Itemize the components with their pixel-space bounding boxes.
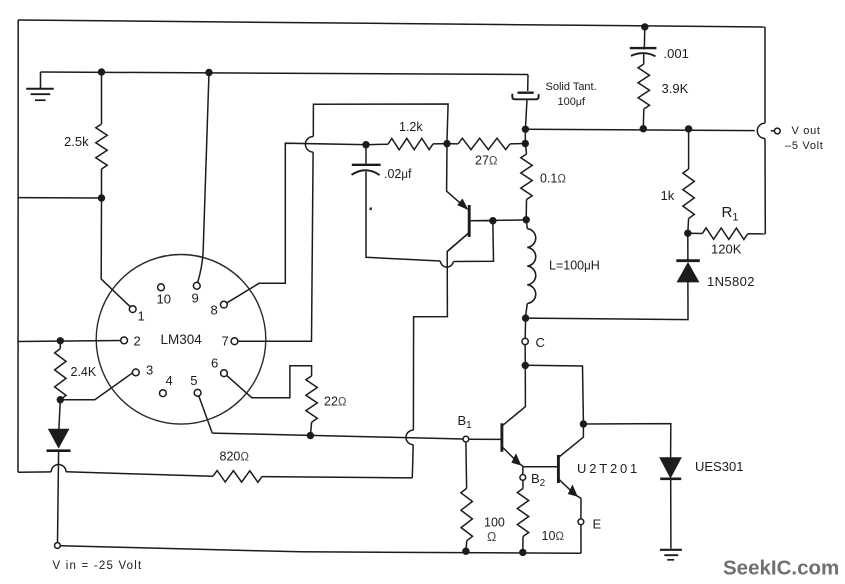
svg-text:5: 5 [190, 373, 197, 388]
wire hop over B1 rail [406, 430, 413, 445]
resistor 120K [702, 228, 747, 240]
wire right border lower [764, 139, 766, 234]
wire C lower lead [524, 345, 526, 363]
terminal V in [55, 543, 61, 549]
resistor 3.9K [638, 64, 649, 109]
wire 22 bottom lead [310, 422, 311, 435]
wire right border upper [764, 27, 766, 123]
wire 2.5k top lead [101, 72, 103, 124]
resistor 820 [213, 471, 262, 483]
wire pin6 link [227, 366, 312, 398]
capacitor Solid Tant 100uf [512, 93, 538, 100]
pin 10 [158, 284, 165, 291]
transistor Q3 [447, 199, 490, 251]
wire pin1 riser [101, 198, 130, 307]
svg-text:–5 Volt: –5 Volt [785, 140, 824, 152]
wire 120K right lead [748, 233, 766, 235]
pin 9 [193, 282, 200, 289]
diode 1N5802 [676, 261, 700, 282]
terminal V out [774, 128, 780, 134]
svg-text:10Ω: 10Ω [542, 529, 565, 543]
wire solid-tant top lead [527, 75, 529, 92]
svg-text:1: 1 [138, 309, 145, 324]
wire 3.9K bottom lead [642, 109, 645, 129]
svg-text:V in = -25 Volt: V in = -25 Volt [53, 560, 143, 572]
svg-text:Ω: Ω [487, 530, 496, 544]
pin 8 [221, 301, 228, 308]
svg-text:V out: V out [792, 125, 821, 137]
svg-text:E: E [593, 517, 602, 532]
svg-text:C: C [536, 335, 545, 350]
stray dot artifact [370, 208, 372, 211]
wire ground rail [41, 72, 529, 75]
capacitor .02uf [352, 165, 381, 175]
wire top rail [18, 20, 765, 27]
svg-text:.02μf: .02μf [384, 167, 412, 181]
svg-text:2.5k: 2.5k [64, 134, 89, 149]
wire 820 rail mid [66, 472, 213, 476]
wire 1.2k left lead [366, 143, 388, 146]
wire 100 bottom lead [465, 541, 468, 552]
svg-text:6: 6 [211, 356, 218, 371]
pin 5 [194, 389, 201, 396]
svg-text:Solid Tant.: Solid Tant. [546, 81, 597, 93]
wire 2.5k bottom lead [101, 169, 103, 198]
transistor Q2 [558, 424, 583, 498]
wire hop over collector riser [440, 261, 453, 267]
svg-text:100μf: 100μf [558, 96, 586, 108]
wire collector riser upper [413, 233, 468, 430]
wire 10 bottom lead [522, 537, 524, 553]
wire inductor top lead [526, 220, 527, 229]
resistor 22 [306, 376, 317, 422]
wire hop over V out lead [757, 123, 765, 138]
svg-text:2.4K: 2.4K [71, 365, 97, 379]
wire .02 top lead [365, 145, 367, 164]
resistor 2.4K [55, 349, 66, 400]
wire C to Q2 collector [525, 365, 583, 421]
svg-text:27Ω: 27Ω [475, 154, 498, 168]
svg-text:UES301: UES301 [695, 459, 743, 474]
svg-text:1k: 1k [661, 188, 675, 203]
diode D1 [47, 429, 71, 451]
resistor 1.2k [388, 138, 433, 150]
svg-text:U2T201: U2T201 [577, 461, 640, 476]
op-amp regulator LM304 body [96, 254, 266, 424]
svg-text:L=100μH: L=100μH [549, 259, 600, 273]
wire 0.1 top lead [525, 144, 526, 155]
wire pin7 link [238, 152, 313, 341]
resistor 0.1 [521, 154, 532, 200]
wire vout-27 link [524, 129, 526, 143]
wire rect top [313, 104, 448, 141]
wire B1 rail [212, 433, 463, 439]
pin 4 [160, 390, 167, 397]
pin 2 [121, 337, 128, 344]
svg-text:LM304: LM304 [161, 332, 203, 347]
svg-text:0.1Ω: 0.1Ω [540, 172, 566, 186]
wire diode bottom lead [58, 451, 59, 543]
svg-text:10: 10 [157, 292, 171, 307]
terminal B2 [520, 475, 526, 481]
wire 1N5802 top lead [687, 236, 689, 261]
pin 1 [129, 306, 136, 313]
wire 820 rail left [18, 471, 51, 473]
svg-text:1.2k: 1.2k [399, 120, 423, 134]
wire V in rail [60, 546, 581, 554]
ground [26, 72, 54, 100]
node C [522, 338, 528, 344]
wire 120K left lead [688, 232, 703, 234]
wire 10 top lead [522, 480, 524, 488]
wire B1 to Q1 base [469, 438, 501, 440]
wire UES301 bottom lead [670, 479, 672, 549]
wire .02 bottom lead [366, 172, 440, 262]
svg-text:3: 3 [146, 363, 153, 378]
svg-text:.001: .001 [664, 46, 689, 61]
wire inductor bottom lead [526, 304, 528, 316]
wire inductor to diode [526, 282, 688, 320]
wire pin3 link [60, 373, 133, 400]
wire 1k bottom lead [687, 219, 690, 234]
wire Q2 emitter lead [580, 498, 582, 519]
resistor 1k [683, 169, 694, 219]
pin 3 [132, 369, 139, 376]
svg-text:8: 8 [211, 303, 218, 318]
svg-text:120K: 120K [711, 242, 742, 257]
wire to left border y198 [18, 197, 102, 199]
svg-text:7: 7 [222, 333, 229, 348]
wire 1k top lead [688, 129, 690, 169]
wire Q3 emitter riser [447, 144, 467, 209]
wire .001 top lead [643, 27, 646, 50]
wire hop over V in lead [51, 464, 66, 471]
wire Q2 base rail [524, 466, 558, 468]
wire V out stub [771, 130, 775, 132]
wire 0.1 bottom lead [525, 200, 527, 220]
svg-text:1N5802: 1N5802 [707, 274, 755, 289]
wire left border [17, 20, 19, 472]
wire .02 to base riser [453, 224, 493, 262]
wire collector riser lower [411, 445, 414, 478]
svg-text:22Ω: 22Ω [324, 395, 347, 409]
wire 820 rail right [262, 477, 412, 478]
svg-text:9: 9 [192, 291, 199, 306]
svg-text:3.9K: 3.9K [662, 81, 689, 96]
wire 2.4K top lead [59, 341, 61, 349]
svg-text:820Ω: 820Ω [220, 450, 250, 464]
svg-text:2: 2 [134, 333, 141, 348]
wire pin9 riser [198, 73, 209, 283]
wire V out rail [525, 129, 754, 130]
wire diode top lead [59, 400, 60, 429]
terminal B1 [463, 436, 469, 442]
wire base rail [469, 219, 526, 222]
wire 27 right lead [510, 143, 525, 145]
svg-text:4: 4 [166, 373, 173, 388]
wire pin5 link [199, 396, 213, 433]
wire Q2c to UES301 [583, 424, 670, 458]
capacitor .001 [630, 48, 657, 56]
wire hop over pin8 rail [305, 136, 313, 152]
resistor 100 [461, 488, 473, 540]
pin 7 [231, 338, 238, 345]
wire Q1 collector [503, 366, 526, 426]
diode UES301 [660, 458, 681, 479]
transistor Q1 [502, 423, 524, 466]
wire solid-tant bottom lead [525, 99, 527, 129]
ground under UES301 [660, 550, 682, 560]
wire cap-3.9K link [643, 53, 645, 64]
terminal E [578, 519, 584, 525]
wire pin2 [18, 341, 121, 342]
wire C upper lead [524, 318, 526, 338]
pin 6 [221, 370, 228, 377]
svg-text:SeekIC.com: SeekIC.com [723, 557, 839, 580]
inductor L [527, 229, 535, 304]
wire 100 top lead [465, 442, 468, 488]
resistor 10 [517, 489, 528, 537]
wire 1.2k right lead [433, 143, 447, 145]
wire pin8 link [227, 143, 363, 303]
wire E to rail [580, 525, 582, 554]
resistor 2.5k [96, 124, 107, 169]
resistor 27 [458, 138, 510, 149]
wire B2 stub [522, 467, 524, 475]
wire 27 left lead [447, 143, 458, 145]
svg-text:100: 100 [484, 516, 505, 530]
